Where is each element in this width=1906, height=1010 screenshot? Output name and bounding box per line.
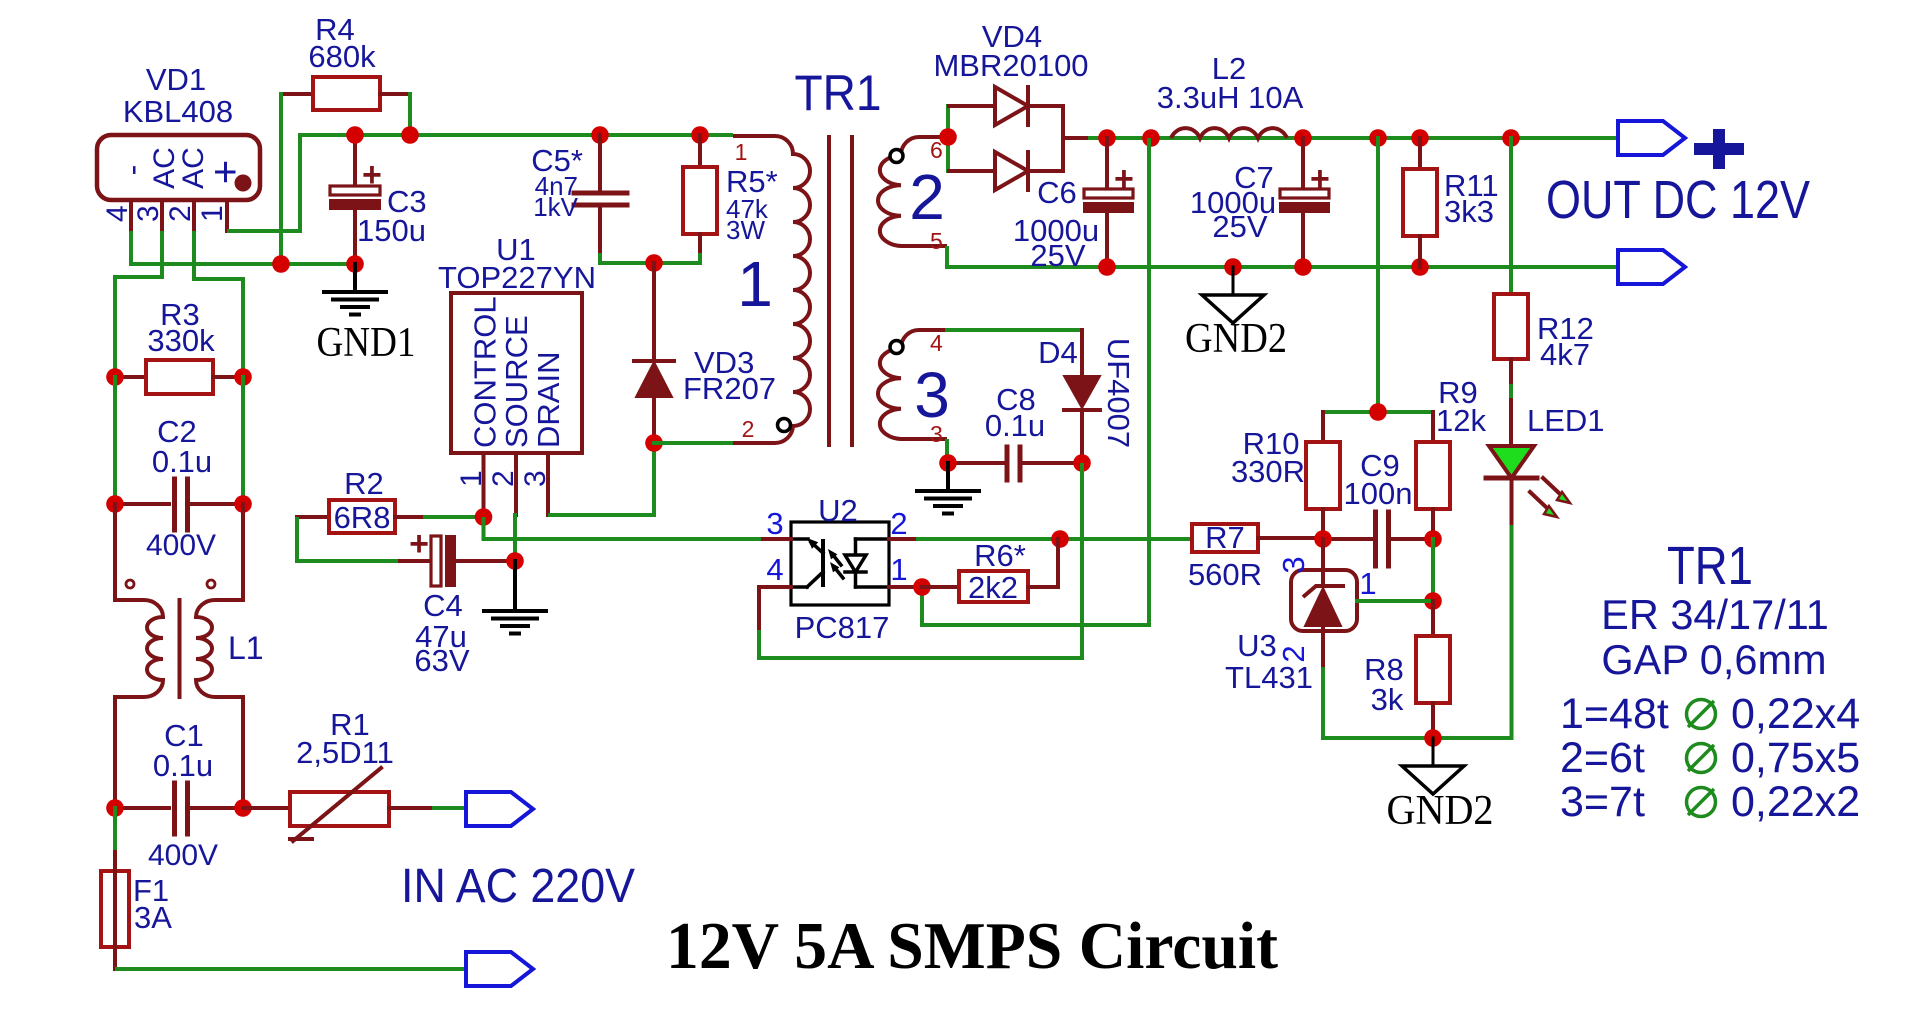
ground GND2 (secondary) xyxy=(1232,267,1235,295)
fuse F1 3A xyxy=(113,808,117,871)
capacitor C7 1000u 25V xyxy=(1301,138,1305,189)
resistor R2 6R8 xyxy=(297,515,329,519)
svg-text:SOURCE: SOURCE xyxy=(499,315,534,448)
TR1 primary winding 1 xyxy=(654,441,733,445)
svg-text:1: 1 xyxy=(196,205,229,222)
svg-text:PC817: PC817 xyxy=(795,610,890,645)
resistor R11 3k3 xyxy=(1418,138,1422,169)
svg-text:1: 1 xyxy=(455,470,488,487)
diode D4 UF4007 xyxy=(1080,330,1084,376)
svg-text:1: 1 xyxy=(735,139,748,165)
svg-text:63V: 63V xyxy=(414,643,469,678)
wire U1 pin3 DRAIN to VD3 node xyxy=(548,443,654,515)
svg-text:TR1: TR1 xyxy=(1667,536,1753,596)
resistor R9 12k xyxy=(1431,412,1435,442)
svg-text:L1: L1 xyxy=(228,630,264,666)
wire U2 pin1 node down to top rail riser xyxy=(922,138,1149,625)
ground GND2 (bottom) xyxy=(1432,738,1435,766)
svg-text:GAP 0,6mm: GAP 0,6mm xyxy=(1601,636,1826,683)
wire C5/R5 bottoms joined xyxy=(598,255,602,263)
wire winding2 pin6 up xyxy=(946,106,950,171)
resistor R10 330R xyxy=(1321,412,1325,442)
capacitor C2 0.1u 400V xyxy=(115,502,169,506)
wire R10/R9 tops xyxy=(1323,410,1433,414)
svg-text:U3: U3 xyxy=(1237,628,1277,663)
svg-text:IN AC 220V: IN AC 220V xyxy=(401,860,635,913)
common-mode choke L1 xyxy=(113,504,117,600)
svg-text:0.1u: 0.1u xyxy=(985,408,1045,443)
capacitor C8 0.1u xyxy=(948,461,1003,465)
svg-text:DRAIN: DRAIN xyxy=(531,352,566,448)
svg-text:+: + xyxy=(1310,160,1330,198)
svg-text:330R: 330R xyxy=(1231,454,1305,489)
svg-text:VD1: VD1 xyxy=(146,62,206,97)
svg-text:R6*: R6* xyxy=(974,538,1026,573)
optocoupler U2 PC817 xyxy=(791,522,889,605)
svg-text:4: 4 xyxy=(101,205,134,222)
svg-text:680k: 680k xyxy=(308,39,376,74)
svg-text:25V: 25V xyxy=(1030,238,1085,273)
svg-text:GND2: GND2 xyxy=(1185,316,1287,362)
svg-text:0,22x4: 0,22x4 xyxy=(1731,690,1860,738)
svg-text:CONTROL: CONTROL xyxy=(468,296,503,448)
capacitor C3 150u xyxy=(353,135,357,186)
svg-text:+: + xyxy=(1114,160,1134,198)
svg-text:-: - xyxy=(114,165,150,176)
svg-text:4: 4 xyxy=(766,552,783,587)
svg-text:2=6t: 2=6t xyxy=(1560,734,1645,782)
svg-text:0,75x5: 0,75x5 xyxy=(1731,734,1860,782)
svg-text:12V 5A SMPS Circuit: 12V 5A SMPS Circuit xyxy=(666,909,1279,983)
svg-text:+: + xyxy=(409,525,429,563)
resistor R8 3k xyxy=(1431,601,1435,636)
svg-text:3: 3 xyxy=(914,359,950,431)
capacitor C1 0.1u 400V xyxy=(115,806,169,810)
svg-text:+: + xyxy=(362,156,382,194)
svg-text:1: 1 xyxy=(737,248,773,320)
wire U1 pin2 SOURCE down to C4 node xyxy=(513,515,517,561)
wire R1 to IN connector xyxy=(434,806,466,810)
wire winding3 pin4 to D4 xyxy=(947,328,1082,332)
svg-text:2: 2 xyxy=(909,161,945,233)
wire R4 right down to top rail xyxy=(408,94,412,135)
svg-text:2: 2 xyxy=(890,506,907,541)
wire LED1 to bottom node xyxy=(1510,527,1514,738)
svg-text:OUT DC 12V: OUT DC 12V xyxy=(1546,170,1810,230)
svg-text:2: 2 xyxy=(487,470,520,487)
svg-text:3.3uH 10A: 3.3uH 10A xyxy=(1157,80,1304,115)
svg-text:KBL408: KBL408 xyxy=(123,94,233,129)
wire U2 pin4 down and to D4 node xyxy=(759,463,1082,658)
svg-text:ER 34/17/11: ER 34/17/11 xyxy=(1601,591,1829,638)
wire R12 riser xyxy=(1509,138,1513,294)
TR1 winding 3 xyxy=(878,330,947,439)
resistor R12 4k7 xyxy=(1494,294,1528,359)
ground GND1 xyxy=(353,264,357,292)
svg-text:R2: R2 xyxy=(344,466,384,501)
resistor R4 680k xyxy=(281,92,313,96)
svg-text:12k: 12k xyxy=(1436,403,1486,438)
svg-text:TR1: TR1 xyxy=(795,65,882,121)
svg-text:400V: 400V xyxy=(146,529,216,562)
svg-text:3=7t: 3=7t xyxy=(1560,778,1645,826)
svg-text:GND2: GND2 xyxy=(1387,788,1494,834)
node GND1 wire xyxy=(131,262,355,266)
svg-text:3: 3 xyxy=(1276,556,1311,573)
svg-text:330k: 330k xyxy=(147,323,215,358)
wire winding3 pin3 to C8 node xyxy=(947,439,1003,463)
svg-text:0.1u: 0.1u xyxy=(153,748,213,783)
svg-text:1kV: 1kV xyxy=(533,192,578,222)
ground under C4 xyxy=(513,561,517,611)
svg-text:R7: R7 xyxy=(1205,520,1245,555)
svg-text:400V: 400V xyxy=(148,839,218,872)
diode VD3 FR207 xyxy=(652,263,656,361)
svg-text:MBR20100: MBR20100 xyxy=(933,48,1088,83)
resistor R7 560R xyxy=(1192,524,1258,552)
svg-text:D4: D4 xyxy=(1038,335,1078,370)
varistor R1 2,5D11 xyxy=(243,806,290,810)
svg-text:6R8: 6R8 xyxy=(334,500,391,535)
svg-text:3: 3 xyxy=(766,506,783,541)
shunt regulator U3 TL431 xyxy=(1291,570,1357,631)
wire winding2 pin5 to bottom rail xyxy=(947,246,1618,267)
svg-text:3W: 3W xyxy=(726,215,765,245)
top output rail xyxy=(1090,136,1618,140)
svg-text:3A: 3A xyxy=(134,900,172,935)
wire VD1 pin3 to R3 left xyxy=(115,231,162,377)
inductor L2 3.3uH 10A xyxy=(1171,128,1287,138)
svg-text:150u: 150u xyxy=(357,213,426,248)
svg-text:2k2: 2k2 xyxy=(968,570,1018,605)
connector OUT+ xyxy=(1618,121,1685,155)
wire U3 pin1 to R8 top xyxy=(1357,599,1433,603)
svg-text:25V: 25V xyxy=(1212,209,1267,244)
capacitor C5 4n7 1kV xyxy=(598,135,602,190)
wire U3 pin2 down to bottom node xyxy=(1323,667,1513,738)
connector IN2 xyxy=(466,952,533,986)
top rail with dots xyxy=(591,126,609,144)
svg-text:3k3: 3k3 xyxy=(1444,194,1494,229)
wire R4 left down to GND1 node xyxy=(279,94,283,264)
svg-text:560R: 560R xyxy=(1188,557,1262,592)
wire R2 left to C4 plus xyxy=(297,517,404,561)
capacitor C4 47u 63V xyxy=(400,559,431,563)
wire VD1 pin4 to GND1 node xyxy=(131,231,355,264)
wire U1 pin1 CONTROL to U2 pin3 xyxy=(484,517,764,539)
TR1 core xyxy=(827,137,831,445)
svg-text:0.1u: 0.1u xyxy=(152,444,212,479)
bridge rectifier VD1 KBL408 xyxy=(97,135,260,200)
connector IN1 xyxy=(466,792,533,826)
svg-text:2: 2 xyxy=(164,205,197,222)
wire U2 pin2 to R7 xyxy=(918,537,1192,541)
ground under C8 xyxy=(946,463,950,491)
wire C9 right down to U3 pin1 node xyxy=(1431,539,1435,601)
wire F1 to IN connector 2 xyxy=(115,967,466,971)
svg-text:100n: 100n xyxy=(1344,476,1413,511)
wire R2 right to U1 pin1 xyxy=(425,515,484,519)
TR1 winding 2 xyxy=(878,137,947,246)
svg-text:GND1: GND1 xyxy=(317,320,416,366)
svg-text:UF4007: UF4007 xyxy=(1101,338,1136,448)
svg-text:1: 1 xyxy=(890,552,907,587)
svg-text:2: 2 xyxy=(742,416,755,442)
svg-text:U2: U2 xyxy=(818,493,858,528)
svg-text:4: 4 xyxy=(930,330,943,356)
svg-text:1: 1 xyxy=(1359,566,1376,601)
svg-text:2,5D11: 2,5D11 xyxy=(296,735,394,770)
resistor R6* 2k2 xyxy=(922,585,959,589)
svg-text:3: 3 xyxy=(519,470,552,487)
IC U1 TOP227YN xyxy=(451,293,582,453)
resistor R3 330k xyxy=(115,375,146,379)
svg-text:C4: C4 xyxy=(423,588,463,623)
bottom rail dots xyxy=(1098,258,1116,276)
resistor R5 47k 3W xyxy=(698,135,702,167)
svg-text:4k7: 4k7 xyxy=(1540,337,1590,372)
capacitor C9 100n xyxy=(1323,537,1372,541)
svg-text:3: 3 xyxy=(132,205,165,222)
svg-text:TOP227YN: TOP227YN xyxy=(438,260,596,295)
wire VD1 pin1 to top rail xyxy=(227,135,733,231)
svg-text:3k: 3k xyxy=(1371,682,1404,717)
svg-text:1=48t: 1=48t xyxy=(1560,690,1669,738)
connector OUT- xyxy=(1618,250,1685,284)
wire VD1 pin2 to R3 right xyxy=(194,231,243,377)
riser from top rail to divider xyxy=(1376,138,1380,412)
plus symbol xyxy=(1694,143,1744,155)
svg-text:0,22x2: 0,22x2 xyxy=(1731,778,1860,826)
svg-text:TL431: TL431 xyxy=(1225,660,1313,695)
svg-text:FR207: FR207 xyxy=(683,371,776,406)
wire R3 to C2 xyxy=(113,377,117,504)
capacitor C6 1000u 25V xyxy=(1105,138,1109,189)
svg-text:LED1: LED1 xyxy=(1527,403,1605,438)
svg-text:C6: C6 xyxy=(1037,175,1077,210)
junction dots top-left xyxy=(346,126,364,144)
LED LED1 xyxy=(1489,446,1534,478)
